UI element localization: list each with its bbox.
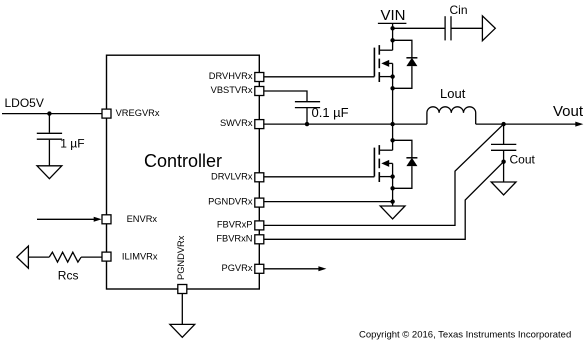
node Cout bottom junction [501, 160, 505, 164]
wire PGNDVRx to power ground [264, 201, 393, 203]
pin VBSTVRx [255, 87, 264, 96]
node high FET source junction [390, 74, 394, 78]
wire LDO5V net [2, 113, 102, 115]
label ENVRx [127, 214, 158, 224]
controller U1 box [107, 55, 260, 289]
ground under 1uF [37, 166, 62, 179]
svg-text:ENVRx: ENVRx [127, 214, 158, 224]
svg-text:0.1 µF: 0.1 µF [312, 105, 349, 120]
wire ENVRx input arrow [37, 217, 102, 222]
wire VIN column to high FET drain [392, 28, 394, 50]
pin DRVHVRx [255, 73, 264, 82]
label 1uF [60, 137, 84, 151]
label ILIMVRx [122, 251, 158, 261]
svg-text:DRVHVRx: DRVHVRx [209, 71, 253, 81]
svg-text:VIN: VIN [380, 7, 405, 24]
label DRVHVRx [209, 71, 253, 81]
svg-text:Vout: Vout [553, 103, 584, 120]
label Rcs [58, 269, 79, 283]
ground bottom [170, 324, 195, 337]
svg-text:PGVRx: PGVRx [222, 263, 253, 273]
capacitor 1uF [37, 114, 62, 166]
node SW column junction [390, 122, 394, 126]
node VIN junction [390, 26, 394, 30]
pin ENVRx [102, 215, 111, 224]
ground under Cout [491, 182, 516, 195]
svg-text:DRVLVRx: DRVLVRx [211, 171, 253, 181]
svg-text:FBVRxN: FBVRxN [216, 233, 252, 243]
pin FBVRxN [255, 235, 264, 244]
wire FBVRxN sense to Cout ground [264, 162, 504, 240]
inductor Lout [427, 107, 476, 124]
node high FET drain junction [390, 38, 394, 42]
svg-text:VREGVRx: VREGVRx [116, 108, 160, 118]
svg-text:Cout: Cout [510, 153, 536, 167]
node Vout junction [501, 122, 505, 126]
pin SWVRx [255, 120, 264, 129]
wire VBSTVRx to bootstrap cap [264, 91, 307, 102]
wire SW to low FET drain [392, 124, 394, 150]
terminal triangle right of Cin [482, 16, 495, 41]
wire low FET source to ground [392, 177, 394, 206]
node LDO5V junction [47, 111, 51, 115]
diode D1 body diode high side [393, 40, 418, 88]
label 0.1uF [312, 105, 349, 120]
label Lout [440, 86, 466, 101]
capacitor 0.1uF [295, 102, 320, 124]
svg-text:Copyright © 2016, Texas Instru: Copyright © 2016, Texas Instruments Inco… [359, 330, 571, 341]
wire DRVLVRx to gate [264, 176, 374, 178]
wire FBVRxP sense to Vout [264, 124, 504, 225]
pin PGNDVRx right [255, 198, 264, 207]
pin DRVLVRx [255, 173, 264, 182]
wire Cin to terminal [451, 27, 482, 29]
svg-text:ILIMVRx: ILIMVRx [122, 251, 158, 261]
svg-text:Cin: Cin [450, 3, 468, 17]
wire VIN to Cin [393, 27, 446, 29]
pin PGVRx [255, 264, 264, 273]
wire Vout arrow [504, 122, 584, 127]
node low FET drain junction [390, 138, 394, 142]
svg-text:LDO5V: LDO5V [5, 96, 44, 110]
label LDO5V [5, 96, 44, 110]
label Controller [144, 151, 222, 171]
terminal triangle left of Rcs [17, 246, 29, 268]
VIN underline [378, 22, 407, 24]
wire SW node [264, 123, 427, 125]
svg-text:1 µF: 1 µF [60, 137, 84, 151]
resistor Rcs [49, 252, 81, 262]
svg-text:VBSTVRx: VBSTVRx [211, 85, 253, 95]
node high FET diode return junction [390, 86, 394, 90]
wire VIN stub [392, 23, 394, 28]
svg-text:Rcs: Rcs [58, 269, 79, 283]
svg-text:PGNDVRx: PGNDVRx [176, 235, 186, 280]
wire PGVRx output arrow [264, 266, 326, 271]
transistor Q1 high-side MOSFET [374, 45, 392, 82]
label FBVRxN [216, 233, 252, 243]
wire DRVHVRx to gate [264, 76, 374, 78]
svg-text:SWVRx: SWVRx [220, 118, 253, 128]
node low FET source junction [390, 174, 394, 178]
svg-text:PGNDVRx: PGNDVRx [208, 196, 253, 206]
label PGNDVRx bottom rotated [176, 235, 186, 280]
transistor Q2 low-side MOSFET [374, 145, 392, 182]
label FBVRxP [217, 219, 253, 229]
node power ground junction [390, 199, 394, 203]
svg-text:FBVRxP: FBVRxP [217, 219, 253, 229]
label VIN [380, 7, 405, 24]
label Vout [553, 103, 584, 120]
capacitor Cin [445, 16, 451, 40]
wire bottom pin to ground [181, 294, 183, 325]
label copyright [359, 330, 571, 341]
wire inductor to Vout [476, 123, 504, 125]
node low FET diode return junction [390, 186, 394, 190]
capacitor Cout [491, 124, 516, 182]
label VREGVRx [116, 108, 160, 118]
label PGNDVRx right [208, 196, 253, 206]
pin PGNDVRx bottom [178, 285, 187, 294]
svg-text:Controller: Controller [144, 151, 222, 171]
label DRVLVRx [211, 171, 253, 181]
pin ILIMVRx [102, 252, 111, 261]
label SWVRx [220, 118, 253, 128]
label PGVRx [222, 263, 253, 273]
ground under low FET [380, 206, 405, 219]
pin VREGVRx [102, 109, 111, 118]
svg-text:Lout: Lout [440, 86, 466, 101]
wire resistor to ILIMVRx [81, 256, 102, 258]
pin FBVRxP [255, 221, 264, 230]
wire triangle to resistor [28, 256, 49, 258]
node bootstrap cap to SW junction [305, 122, 309, 126]
label Cout [510, 153, 536, 167]
label VBSTVRx [211, 85, 253, 95]
wire high FET source to SW [392, 77, 394, 125]
label Cin [450, 3, 468, 17]
diode D2 body diode low side [393, 140, 418, 188]
